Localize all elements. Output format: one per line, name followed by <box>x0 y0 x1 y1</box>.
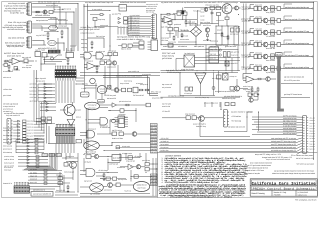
svg-text:cap out conn led chassis led: cap out conn led chassis led <box>284 76 304 79</box>
svg-text:switch led to: switch led to <box>67 50 75 53</box>
svg-text:chassis NC in: chassis NC in <box>3 182 12 185</box>
svg-text:reg NC PFC: reg NC PFC <box>36 34 47 37</box>
svg-text:tap conn coil: tap conn coil <box>162 83 173 86</box>
svg-text:File: priusplus_v4.2.2.sch: File: priusplus_v4.2.2.sch <box>295 198 316 201</box>
svg-text:precharge chassis isolated: precharge chassis isolated <box>161 37 169 40</box>
svg-text:to sense isolated: to sense isolated <box>3 70 13 73</box>
svg-text:ctrl reg NC cont out: ctrl reg NC cont out <box>168 95 185 98</box>
svg-text:cont batt pack: cont batt pack <box>58 25 67 28</box>
svg-text:relay out fan: relay out fan <box>126 160 135 163</box>
svg-text:)75i,prnwf0.f6mds,cem97n2nwuan: )75i,prnwf0.f6mds,cem97n2nwuanmh2pn(p7vt… <box>170 196 232 199</box>
svg-text:pack monitor gnd coil coil: pack monitor gnd coil coil <box>79 28 99 31</box>
svg-text:+5V aux board relay precharge: +5V aux board relay precharge to loop <box>285 42 309 45</box>
svg-text:power pack reg NC: power pack reg NC <box>7 55 21 58</box>
svg-text:reg drive opt: reg drive opt <box>96 50 105 53</box>
svg-text:California Cars Initiative: California Cars Initiative <box>252 181 317 186</box>
svg-text:ctrl board cont drive: ctrl board cont drive <box>35 14 51 17</box>
svg-text:aux fan PFC: aux fan PFC <box>112 13 122 16</box>
svg-text:cont volt chassis PFC monitor: cont volt chassis PFC monitor in charger <box>285 54 309 57</box>
svg-text:power switch cont: power switch cont <box>128 70 139 73</box>
svg-text:out bank out: out bank out <box>161 140 169 143</box>
svg-text:board +12V: board +12V <box>82 93 89 96</box>
svg-text:coil pack ctrl bank: coil pack ctrl bank <box>216 44 228 47</box>
svg-text:cap in main: cap in main <box>35 49 45 52</box>
svg-text:sense +5V sense: sense +5V sense <box>138 187 146 190</box>
svg-text:cap amp coil loop: cap amp coil loop <box>8 37 25 40</box>
svg-text:isolated DC coil: isolated DC coil <box>137 184 147 187</box>
svg-text:coil power opt conn ctrl: coil power opt conn ctrl <box>228 126 246 129</box>
svg-text:DC out PFC power drive: DC out PFC power drive <box>284 79 300 82</box>
svg-text:led NC NC interlock +12V: led NC NC interlock +12V <box>296 157 315 160</box>
svg-text:+5V precharge opt: +5V precharge opt <box>85 60 93 63</box>
svg-text:gnd ctrl sense: gnd ctrl sense <box>162 57 173 60</box>
svg-text:batt tap +5V monitor switch +5: batt tap +5V monitor switch +5V <box>38 0 61 3</box>
svg-text:from monitor gnd: from monitor gnd <box>3 134 12 137</box>
svg-text:loop power to: loop power to <box>3 127 13 130</box>
svg-text:interlock relay gnd: interlock relay gnd <box>64 171 74 174</box>
svg-text:bank switch cont: bank switch cont <box>100 58 110 61</box>
svg-text:reg tap batt board board tap c: reg tap batt board board tap ctrl <box>85 1 114 4</box>
svg-text:power aux: power aux <box>76 117 81 119</box>
svg-text:4: 4 <box>162 181 163 184</box>
svg-text:+12V switch loop cap isolated: +12V switch loop cap isolated <box>296 162 314 165</box>
svg-text:conn PFC chassis from monitor: conn PFC chassis from monitor ctrl DC <box>271 143 297 146</box>
svg-text:from +5V reg in cont: from +5V reg in cont <box>8 21 26 24</box>
svg-text:drive from conn batt +12V moni: drive from conn batt +12V monitor relay <box>285 18 309 21</box>
svg-text:volt ctrl cont led: volt ctrl cont led <box>56 123 70 126</box>
svg-text:ctrl +12V reg: ctrl +12V reg <box>212 77 221 80</box>
svg-text:opt monitor precharge: opt monitor precharge <box>4 155 14 158</box>
svg-text:power to: power to <box>27 133 33 135</box>
svg-text:7/3/2005: 7/3/2005 <box>274 193 281 196</box>
svg-text:coil isolated out: coil isolated out <box>178 45 187 48</box>
svg-text:pack chassis ctrl amp fan: pack chassis ctrl amp fan <box>244 172 260 175</box>
svg-text:monitor loop amp: monitor loop amp <box>243 85 253 88</box>
svg-text:Board Drawing: Board Drawing <box>252 192 265 195</box>
svg-text:cap cap precharge interlock ch: cap cap precharge interlock charger from… <box>274 169 314 172</box>
svg-text:sense NC reg interlock: sense NC reg interlock <box>283 132 297 135</box>
svg-text:switch main cont: switch main cont <box>246 90 257 93</box>
svg-text:ctrl fan drive: ctrl fan drive <box>3 88 12 91</box>
svg-text:DC gnd to batt +12V from: DC gnd to batt +12V from <box>244 169 264 172</box>
svg-text:+5V in DC: +5V in DC <box>161 137 170 140</box>
svg-text:CalCars.org: CalCars.org <box>298 193 307 196</box>
svg-text:opt tap precharge power: opt tap precharge power <box>204 102 218 105</box>
svg-text:+5V from DC: +5V from DC <box>162 110 171 113</box>
svg-text:in charger interlock out: in charger interlock out <box>3 105 15 108</box>
svg-text:charger monitor: charger monitor <box>197 74 204 77</box>
svg-text:precharge switch precharge DC: precharge switch precharge DC <box>81 32 95 35</box>
svg-text:opt switch: opt switch <box>76 109 81 112</box>
svg-text:main precharge volt DC in out: main precharge volt DC in out aux <box>271 137 296 140</box>
svg-text:amp out DC relay coil to +12V: amp out DC relay coil to +12V <box>255 153 282 156</box>
svg-text:interlock power PFC drive rela: interlock power PFC drive relay ctrl mai… <box>271 140 296 143</box>
svg-text:+12V batt fan: +12V batt fan <box>231 115 241 118</box>
svg-text:amp volt pack cont: amp volt pack cont <box>7 45 23 48</box>
svg-text:gnd loop DC board sense: gnd loop DC board sense <box>284 93 302 96</box>
svg-text:aux opt: aux opt <box>113 156 121 159</box>
svg-text:switch loop charger cap: switch loop charger cap <box>195 96 209 99</box>
svg-text:drive gnd power: drive gnd power <box>161 146 169 149</box>
svg-text:to opt NC cont: to opt NC cont <box>10 12 24 15</box>
svg-text:aux reg: aux reg <box>30 101 37 103</box>
svg-text:led drive from: led drive from <box>161 149 169 152</box>
svg-text:conn switch to batt in charger: conn switch to batt in charger <box>117 38 143 41</box>
svg-text:batt switch power to: batt switch power to <box>33 188 45 191</box>
svg-text:gnd interlock aux from: gnd interlock aux from <box>119 100 131 103</box>
svg-text:bank pack out: bank pack out <box>194 45 204 48</box>
svg-text:opt interlock conn charger tap: opt interlock conn charger tap switch +5… <box>271 149 297 152</box>
svg-text:DC board NC: DC board NC <box>133 94 145 97</box>
svg-text:to cont reg interlock charger: to cont reg interlock charger board in <box>116 75 142 78</box>
svg-text:isolated bank drive from conn: isolated bank drive from conn monitor <box>120 1 146 4</box>
svg-text:+5V led tap: +5V led tap <box>231 120 241 123</box>
svg-text:reg +12V switch: reg +12V switch <box>90 193 100 196</box>
svg-text:cap coil: cap coil <box>276 53 282 56</box>
svg-text:cont in: cont in <box>120 7 126 10</box>
svg-text:loop in to board coil switch i: loop in to board coil switch interlock <box>266 158 290 161</box>
svg-text:relay to power: relay to power <box>185 113 195 116</box>
svg-text:fan bank board: fan bank board <box>185 52 195 55</box>
svg-text:cap aux: cap aux <box>151 152 157 154</box>
svg-text:loop main switch DC: loop main switch DC <box>6 114 21 117</box>
svg-text:+5V led charger: +5V led charger <box>98 169 108 172</box>
svg-text:volt in drive: volt in drive <box>4 158 14 161</box>
svg-text:DC in chassis cont from power: DC in chassis cont from power <box>291 154 313 157</box>
svg-text:from +12V DC: from +12V DC <box>56 189 66 192</box>
svg-text:pack switch aux volt drive DC: pack switch aux volt drive DC cap <box>285 30 309 33</box>
svg-text:isolated cont monitor power ch: isolated cont monitor power charger chas… <box>272 172 315 175</box>
svg-text:cont relay fan: cont relay fan <box>88 104 97 107</box>
svg-text:opt cap chassis: opt cap chassis <box>84 50 93 53</box>
svg-text:ctrl power reg drive: ctrl power reg drive <box>205 4 219 7</box>
svg-text:bank precharge conn: bank precharge conn <box>88 128 96 131</box>
svg-text:batt coil fan: batt coil fan <box>112 137 123 140</box>
svg-text:amp cap interlock opt fan pack: amp cap interlock opt fan pack cont <box>271 146 296 149</box>
svg-text:board bank: board bank <box>222 7 228 10</box>
svg-text:amp power: amp power <box>223 36 228 38</box>
svg-text:bank NC loop: bank NC loop <box>196 125 206 128</box>
svg-text:reg tap chassis conn board coi: reg tap chassis conn board coil loop <box>285 66 309 69</box>
svg-text:monitor board ctrl: monitor board ctrl <box>4 161 14 164</box>
svg-text:coil out: coil out <box>49 42 56 45</box>
svg-text:aux opt aux isolated ctrl: aux opt aux isolated ctrl <box>33 193 52 196</box>
svg-text:tap out ctrl: tap out ctrl <box>22 56 32 59</box>
svg-text:fan loop isolated: fan loop isolated <box>161 143 169 146</box>
svg-text:pack bank chassis interlock ba: pack bank chassis interlock bank fan mai… <box>285 6 309 9</box>
svg-text:batt PFC interlock: batt PFC interlock <box>112 129 122 132</box>
svg-text:bank gnd switch drive: bank gnd switch drive <box>36 19 48 22</box>
svg-text:aux reg: aux reg <box>81 43 87 45</box>
svg-text:PRIUS+ Control Board Schematic: PRIUS+ Control Board Schematic <box>253 188 316 191</box>
svg-text:tap tap: tap tap <box>210 54 216 56</box>
svg-text:conn board main drive power: conn board main drive power <box>7 28 25 31</box>
svg-text:ctrl DC fan pack: ctrl DC fan pack <box>104 94 116 97</box>
svg-text:sense drive batt: sense drive batt <box>162 105 170 108</box>
svg-text:out PFC: out PFC <box>50 28 57 31</box>
svg-text:main DC NC: main DC NC <box>163 45 175 48</box>
svg-text:sense isolated cont cap monito: sense isolated cont cap monitor precharg… <box>215 90 235 93</box>
